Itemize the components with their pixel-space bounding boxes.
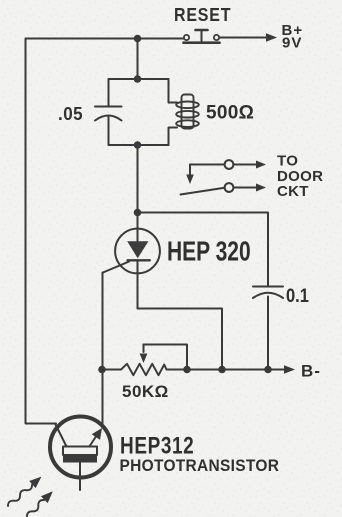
svg-text:TO: TO xyxy=(277,153,298,170)
light arrow 1 xyxy=(5,473,45,510)
relay coil K1 500 ohm xyxy=(169,79,255,145)
svg-text:500Ω: 500Ω xyxy=(206,103,254,124)
label B+ 9V xyxy=(282,22,304,52)
node 0.1 cap junction xyxy=(264,366,272,374)
wire SCR cathode to B- rail xyxy=(138,275,223,370)
node parallel top xyxy=(134,75,142,83)
wire B- rail right segment xyxy=(167,369,287,371)
phototransistor Q1 HEP312 xyxy=(50,417,279,491)
wire reset to B+ arrow xyxy=(220,37,269,39)
light arrow 2 xyxy=(24,488,57,517)
node parallel bottom xyxy=(134,141,142,149)
svg-text:HEP312: HEP312 xyxy=(120,431,194,459)
svg-text:9V: 9V xyxy=(282,35,302,52)
capacitor C2 0.1 xyxy=(253,285,309,370)
node anode junction xyxy=(134,209,142,217)
pushbutton RESET xyxy=(174,4,231,43)
svg-text:50KΩ: 50KΩ xyxy=(122,382,169,401)
wire top supply line xyxy=(26,38,184,40)
svg-text:HEP 320: HEP 320 xyxy=(167,237,251,267)
node junction top supply xyxy=(134,35,142,43)
node pot bracket junction xyxy=(183,366,191,374)
wire left rail from B+ line down to phototransistor xyxy=(26,39,57,424)
wire parallel network top bar xyxy=(109,78,169,80)
label TO DOOR CKT xyxy=(277,153,323,201)
arrowhead B+ xyxy=(266,33,277,41)
SCR HEP 320 xyxy=(103,213,251,275)
svg-text:.05: .05 xyxy=(58,103,83,124)
wire parallel bottom to SCR anode node xyxy=(137,145,139,213)
wire junction to parallel network top xyxy=(137,39,139,80)
svg-text:CKT: CKT xyxy=(277,183,309,200)
wire SCR gate down to B- junction xyxy=(102,273,105,370)
wire B- junction down to phototransistor xyxy=(102,370,104,428)
node cathode junction xyxy=(218,366,226,374)
svg-text:B-: B- xyxy=(301,362,321,381)
svg-text:RESET: RESET xyxy=(174,4,231,26)
capacitor C1 .05 xyxy=(58,79,122,145)
node gate junction on B- rail xyxy=(98,366,106,374)
svg-text:0.1: 0.1 xyxy=(286,285,309,306)
wire B- rail left segment xyxy=(102,369,121,371)
wire parallel network bottom bar xyxy=(109,144,169,146)
svg-text:PHOTOTRANSISTOR: PHOTOTRANSISTOR xyxy=(120,456,280,475)
wire anode node to 0.1 capacitor top xyxy=(138,213,269,287)
potentiometer R1 50K xyxy=(121,345,187,402)
relay contacts to door circuit xyxy=(181,160,267,194)
arrowhead B- xyxy=(284,365,295,373)
